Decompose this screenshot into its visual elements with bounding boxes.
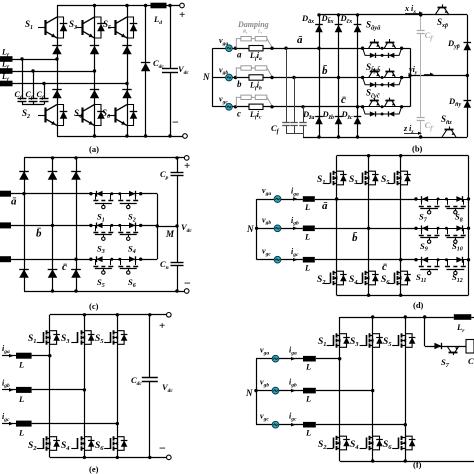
wire Cf a to star	[22, 102, 24, 105]
wire Cdc branch upper	[170, 6, 172, 69]
svg-text:b̄: b̄	[36, 227, 42, 239]
svg-text:b̄: b̄	[352, 232, 358, 244]
wire: cell top rail (c2)	[91, 225, 141, 227]
transistor S3 (d)	[362, 173, 364, 184]
wire Cf' lower lower-half	[420, 121, 422, 137]
node phase a on leg (c)	[22, 192, 25, 195]
node Cdc branch on - bus	[168, 134, 171, 137]
terminal + (c)	[184, 156, 189, 161]
transistor (IGBT) left of pair cell1	[369, 42, 373, 48]
node Cdc + (e)	[148, 313, 151, 316]
wire phase c (d)	[315, 259, 416, 261]
wire phase c (f)	[316, 424, 406, 426]
diode of S12 (body) (d3)	[456, 257, 462, 263]
wire: cell baseline cell1	[363, 48, 402, 50]
transistor Snz	[442, 130, 447, 138]
capacitor Cf c (b)	[299, 122, 307, 124]
svg-text:ā: ā	[322, 200, 328, 212]
diode Dyp	[464, 43, 472, 51]
transistor S2 (MOSFET) (c1)	[120, 194, 122, 200]
node: cell mid-right (c1)	[118, 192, 121, 195]
wire cell1 out (c)	[141, 193, 158, 195]
transistor S6 (e)	[110, 438, 112, 449]
transistor S7 (MOSFET) (d1)	[421, 199, 423, 205]
node rail + (c)	[175, 156, 178, 159]
node legc + (f)	[404, 315, 407, 318]
capacitor Cn	[176, 262, 178, 266]
node cell left (d) 0	[414, 197, 417, 200]
arrow igb (e)	[9, 388, 14, 392]
wire Cfc drop (b)	[303, 107, 305, 122]
wire: cell lower diode path cell1	[363, 48, 402, 55]
node legc + (d)	[399, 154, 402, 157]
diode Dz̄b	[335, 117, 343, 125]
node cell1 left (b)	[361, 47, 364, 50]
node phase c on leg 3	[125, 82, 128, 85]
diode top leg c (c)	[71, 171, 81, 180]
node phase a leg (d)	[335, 197, 338, 200]
source vga (d)	[257, 199, 275, 201]
transistor S3 (MOSFET) (c2)	[95, 225, 97, 231]
node phase c leg (e)	[116, 422, 119, 425]
svg-text:(d): (d)	[413, 300, 424, 310]
node: cell mid-right (d3)	[445, 258, 448, 261]
node: cell mid-right (d2)	[445, 227, 448, 230]
inductor Lfb (b)	[249, 75, 263, 80]
node: cell mid-left (d3)	[437, 258, 440, 261]
wire (d) + bus	[337, 155, 469, 157]
node on positive bus	[125, 4, 128, 7]
node: cell mid-left (d2)	[437, 227, 440, 230]
wire: cell top rail (c1)	[91, 193, 141, 195]
wire source to node b	[233, 77, 249, 79]
wire source-L b (d)	[281, 228, 303, 230]
transistor S3 (IGBT top leg 2)	[76, 27, 83, 29]
diode of S9 (body) (d2)	[422, 225, 428, 231]
inductor L b (d)	[303, 226, 315, 232]
diode bottom leg c (c)	[71, 269, 81, 278]
node a (b)	[234, 47, 237, 50]
node freewheel branch on + bus	[144, 4, 147, 7]
diode of S10 (body) (d2)	[456, 225, 462, 231]
diode bottom leg b (c)	[48, 269, 58, 278]
node phase b leg (d)	[367, 227, 370, 230]
node damping rejoin b	[270, 76, 273, 79]
capacitor Cdc	[162, 68, 178, 70]
wire N rail (f)	[256, 359, 258, 425]
wire Cf branch b	[33, 71, 35, 98]
node phase a on leg 1	[55, 57, 58, 60]
node: cell lower centre cell1	[381, 54, 384, 57]
node legc + (e)	[116, 313, 119, 316]
capacitor Cf' upper	[417, 30, 425, 32]
arrow igb (d)	[293, 226, 298, 230]
transistor S11 (MOSFET) (d3)	[421, 260, 423, 266]
svg-text:(f): (f)	[413, 460, 422, 470]
transistor S5 (e)	[110, 332, 112, 343]
diode series bottom leg 2	[90, 90, 99, 99]
inductor L b (e)	[16, 387, 32, 393]
wire leg b (f)	[372, 317, 374, 461]
transistor S6 (f)	[398, 438, 400, 449]
node cell left (c) 2	[89, 258, 92, 261]
svg-text:N: N	[246, 224, 254, 234]
arrow iga (e)	[9, 354, 14, 358]
wire leg a (f)	[339, 317, 341, 461]
transistor S7 (f)	[447, 346, 451, 352]
arrow igc (d)	[293, 258, 298, 262]
node Cf tap a (b)	[284, 47, 287, 50]
transistor S1 (d)	[330, 173, 332, 184]
node legb - (f)	[371, 459, 374, 462]
node Cf tap c (b)	[301, 105, 304, 108]
diode bottom leg a (c)	[19, 269, 29, 278]
diode Dāx	[315, 25, 323, 33]
node: cell mid-right (c2)	[118, 224, 121, 227]
wire phase b input (e)	[2, 389, 16, 391]
arrow iga (f)	[291, 357, 296, 361]
wire phase b (d)	[315, 228, 416, 230]
svg-text:M: M	[165, 229, 175, 239]
arrow igc (f)	[291, 423, 296, 427]
inductor Lfc (b)	[249, 104, 263, 109]
wire source to node a	[233, 48, 249, 50]
wire: leg 2 vertical	[94, 6, 96, 137]
wire rectifier leg c (c)	[76, 158, 78, 291]
svg-text:c̄: c̄	[62, 261, 67, 273]
svg-text:c̄: c̄	[382, 261, 387, 273]
node cell2 left (b)	[361, 76, 364, 79]
node legc - (e)	[116, 456, 119, 459]
arrow igb (f)	[291, 389, 296, 393]
diode aux (f)	[434, 343, 441, 349]
inductor Lf phase b	[0, 68, 13, 74]
wire: cell lower diode path cell2	[363, 78, 402, 85]
node phase c on leg (c)	[74, 258, 77, 261]
wire Cf' lower (b)	[420, 76, 422, 118]
node column b phase	[337, 76, 340, 79]
svg-text:(a): (a)	[89, 144, 99, 154]
wire phase b (c)	[11, 225, 91, 227]
node Cf tap phase b	[31, 69, 34, 72]
svg-text:L: L	[305, 362, 311, 372]
diode series top leg 3	[122, 46, 131, 55]
wire Cfa drop (b)	[286, 48, 288, 122]
node M	[175, 224, 178, 227]
node phase b leg (f)	[371, 389, 374, 392]
wire Cf branch a	[22, 59, 24, 98]
terminal - (a)	[183, 134, 188, 139]
inductor input phase b (c)	[0, 222, 11, 228]
transistor S1 (e)	[43, 332, 45, 343]
svg-text:L: L	[304, 202, 310, 212]
wire cell2 out (c)	[141, 225, 158, 227]
wire: cell top rail (d2)	[416, 228, 469, 230]
node leg c - bus	[74, 289, 77, 292]
node Cf tap phase a	[20, 57, 23, 60]
wire rectifier leg b (c)	[52, 158, 54, 291]
source vgc (d)	[257, 259, 275, 261]
node freewheel branch on - bus	[144, 134, 147, 137]
transistor S1 (f)	[333, 335, 335, 346]
wire: panel (a) negative DC bus	[57, 136, 185, 138]
inductor L c (e)	[16, 421, 32, 427]
diode series bottom leg 3	[122, 90, 131, 99]
transistor (IGBT) right of pair cell3	[384, 101, 388, 107]
svg-text:a: a	[237, 50, 242, 60]
node c (b)	[234, 105, 237, 108]
wire DC rail (c)	[177, 158, 179, 291]
node phase c leg (d)	[399, 258, 402, 261]
capacitor Cf' lower	[417, 117, 425, 119]
wire Cf' upper lower half	[420, 33, 422, 76]
wire (e) - bus	[50, 457, 169, 459]
transistor S2 (IGBT bottom leg 1)	[38, 115, 45, 117]
wire leg c (e)	[117, 315, 119, 458]
node Cf tap phase c	[42, 82, 45, 85]
svg-text:(c): (c)	[89, 301, 99, 311]
inductor L a (d)	[303, 196, 315, 202]
svg-text:c: c	[237, 108, 241, 118]
node damping rejoin a	[270, 47, 273, 50]
wire Cfb drop (b)	[294, 78, 296, 123]
transistor S4 (d)	[362, 273, 364, 284]
wire cell3 out (c)	[141, 259, 158, 261]
svg-text:b: b	[237, 79, 242, 89]
node legb + (e)	[83, 313, 86, 316]
svg-text:(b): (b)	[412, 144, 423, 154]
diode of S3 (body) (c2)	[96, 223, 102, 229]
diode of S6 (body) (c3)	[129, 256, 135, 262]
transistor (IGBT) left of pair cell3	[369, 101, 373, 107]
wire cell2 out	[402, 77, 410, 79]
node cell3 left (b)	[361, 105, 364, 108]
inductor L c (d)	[303, 257, 315, 263]
inductor input phase a (c)	[0, 191, 11, 197]
node cell left (c) 1	[89, 224, 92, 227]
node on positive bus	[93, 4, 96, 7]
capacitor aux (f)	[466, 340, 474, 354]
wire leg a (d)	[336, 156, 338, 296]
svg-text:N: N	[202, 72, 210, 82]
inductor Lf phase c	[0, 81, 13, 87]
node aux tap (f)	[423, 315, 426, 318]
node column b bottom	[337, 135, 340, 138]
node legb + (d)	[367, 154, 370, 157]
diode of S5 (body) (c3)	[96, 256, 102, 262]
wire cell outputs vertical (b)	[410, 48, 412, 107]
wire (f) + bus	[340, 317, 454, 319]
wire phase a to leg	[13, 59, 58, 61]
node cell right (d) 2	[467, 258, 470, 261]
transistor (IGBT) right of pair cell1	[384, 42, 388, 48]
node on negative bus	[93, 134, 96, 137]
svg-text:c̄: c̄	[341, 94, 346, 106]
wire phase c (c)	[11, 259, 91, 261]
node legc - (d)	[399, 294, 402, 297]
wire rectifier leg a (c)	[24, 158, 26, 291]
capacitor Cf c	[40, 98, 49, 100]
node legb + (f)	[371, 315, 374, 318]
node legc - (f)	[404, 459, 407, 462]
node Cf tap b (b)	[292, 76, 295, 79]
node cell right (c) 2	[139, 258, 142, 261]
wire: cell baseline cell3	[363, 106, 402, 108]
capacitor Cf a	[18, 98, 27, 100]
wire Cfb to common	[294, 126, 296, 134]
node Cdc branch on + bus	[168, 4, 171, 7]
node: cell mid-right (c3)	[118, 258, 121, 261]
transistor S3 (e)	[77, 332, 79, 343]
transistor S12 (MOSFET) (d3)	[447, 260, 449, 266]
arrow z	[404, 133, 418, 135]
node Cf' top	[419, 13, 422, 16]
svg-text:+: +	[159, 320, 165, 332]
transistor S10 (MOSFET) (d2)	[447, 228, 449, 234]
wire Cdc branch (e)	[149, 315, 151, 378]
node: cell lower centre cell3	[381, 113, 384, 116]
wire source-L a (d)	[281, 199, 303, 201]
svg-text:−: −	[184, 276, 191, 290]
wire cell3 out	[402, 106, 410, 108]
wire Cf common to z bus	[303, 134, 305, 137]
svg-text:L: L	[18, 428, 24, 438]
inductor Ld	[151, 3, 167, 9]
diode right of cell lower path cell1	[389, 53, 395, 58]
transistor S4 (MOSFET) (c2)	[120, 225, 122, 231]
wire (c) - bus	[24, 291, 187, 293]
inductor L c (f)	[303, 422, 316, 428]
wire source-L a (f)	[279, 358, 303, 360]
node phase b on leg 2	[93, 69, 96, 72]
wire leg b (d)	[368, 156, 370, 296]
terminal - (c)	[184, 289, 189, 294]
inductor input phase c (c)	[0, 256, 11, 262]
wire: cell top rail (c3)	[91, 259, 141, 261]
svg-text:+: +	[179, 9, 185, 21]
arrow iga (d)	[293, 197, 298, 201]
inductor Lfa (b)	[249, 46, 263, 51]
inductor L a (f)	[303, 356, 316, 362]
wire y line	[410, 75, 467, 77]
node cell left (d) 2	[414, 258, 417, 261]
wire column a (b)	[319, 15, 321, 137]
wire (d) right rail	[468, 156, 470, 296]
source vgb (f)	[256, 390, 272, 392]
node Cf' bottom	[419, 135, 422, 138]
svg-text:ā: ā	[11, 196, 17, 208]
diode series top leg 2	[90, 46, 99, 55]
node: cell mid-left (c1)	[110, 192, 113, 195]
svg-text:L: L	[304, 231, 310, 241]
node damping rejoin c	[270, 105, 273, 108]
node leg c + bus	[74, 156, 77, 159]
svg-text:L: L	[18, 394, 24, 404]
node cell right (c) 0	[139, 192, 142, 195]
transistor Sxp	[435, 7, 440, 14]
transistor S2 (f)	[333, 438, 335, 449]
node column a bottom	[317, 135, 320, 138]
transistor S3 (f)	[366, 335, 368, 346]
svg-text:ā: ā	[297, 34, 303, 46]
wire Cf' upper (b)	[420, 15, 422, 30]
diode Dz̄c	[354, 117, 362, 125]
node legb - (d)	[367, 294, 370, 297]
damping network phase a	[236, 39, 267, 49]
transistor S5 (f)	[398, 335, 400, 346]
transistor (IGBT) left of pair cell2	[369, 71, 373, 77]
diode left of cell lower path cell1	[370, 53, 376, 58]
wire phase a main	[263, 48, 363, 50]
wire source to node c	[233, 106, 249, 108]
node N (f)	[254, 389, 257, 392]
node: cell centre cell3	[381, 105, 384, 108]
wire Cf branch c	[44, 84, 46, 99]
svg-text:L: L	[304, 263, 310, 273]
wire phase b to leg	[13, 71, 95, 73]
node cell right (d) 1	[467, 227, 470, 230]
terminal - (e)	[167, 455, 172, 460]
node b (b)	[234, 76, 237, 79]
node rail-y	[466, 74, 469, 77]
node cell left (c) 0	[89, 192, 92, 195]
node cell right (d) 0	[467, 197, 470, 200]
wire freewheel diode branch	[145, 6, 147, 137]
wire phase a (d)	[315, 199, 416, 201]
damping network phase c	[236, 97, 267, 107]
wire leg c (f)	[405, 317, 407, 461]
svg-text:(e): (e)	[89, 464, 99, 474]
inductor Lr (f)	[454, 314, 472, 320]
wire phase b main	[263, 77, 363, 79]
transistor (IGBT) right of pair cell2	[384, 71, 388, 77]
node phase a leg (f)	[338, 357, 341, 360]
diode left of cell lower path cell2	[370, 82, 376, 87]
inductor L a (e)	[16, 353, 32, 359]
node on negative bus	[125, 134, 128, 137]
wire leg b (e)	[84, 315, 86, 458]
svg-text:−: −	[159, 441, 166, 455]
wire: cell baseline cell2	[363, 77, 402, 79]
node cell3 right (b)	[400, 105, 403, 108]
capacitor Cf a (b)	[282, 122, 290, 124]
transistor S4 (IGBT bottom leg 2)	[76, 115, 83, 117]
transistor S5 (IGBT top leg 3)	[108, 27, 115, 29]
wire phase c main	[263, 106, 363, 108]
node column c top	[356, 13, 359, 16]
node: cell centre cell1	[381, 47, 384, 50]
diode Dny	[464, 100, 472, 108]
node: cell mid-left (c3)	[110, 258, 113, 261]
wire aux drop (f)	[424, 317, 426, 346]
diode Dz̄a	[315, 117, 323, 125]
node phase c leg (f)	[404, 423, 407, 426]
node cell right (c) 1	[139, 224, 142, 227]
node phase b leg (e)	[83, 388, 86, 391]
source vgb (d)	[257, 228, 275, 230]
node rail - (c)	[175, 289, 178, 292]
diode of S2 (body) (c1)	[129, 191, 135, 197]
node cell1 right (b)	[400, 47, 403, 50]
wire leg c (d)	[400, 156, 402, 296]
node phase a leg (e)	[48, 354, 51, 357]
transistor S6 (MOSFET) (c3)	[120, 259, 122, 265]
node Cdc - (e)	[148, 456, 151, 459]
capacitor Cdc (e)	[142, 377, 158, 379]
svg-text:Rs: Rs	[243, 29, 248, 35]
wire: cell top rail (d1)	[416, 199, 469, 201]
wire N rail (b)	[212, 48, 214, 107]
